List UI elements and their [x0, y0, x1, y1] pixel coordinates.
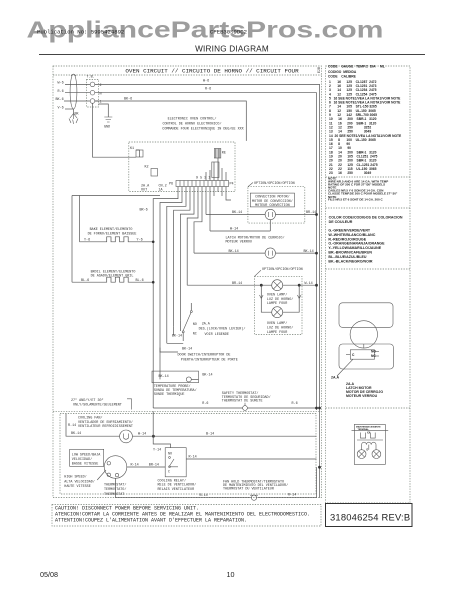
svg-text:T.B.: T.B.: [87, 76, 95, 80]
svg-text:R-6: R-6: [202, 402, 208, 406]
svg-text:VENTILADOR DE ENFRIAMIENTO/: VENTILADOR DE ENFRIAMIENTO/: [78, 420, 133, 425]
svg-text:BK-14: BK-14: [229, 250, 239, 254]
svg-text:W-14: W-14: [230, 228, 238, 232]
svg-text:BASSE VITESSE: BASSE VITESSE: [72, 463, 98, 467]
svg-text:W-6: W-6: [58, 82, 64, 86]
svg-text:K1: K1: [130, 147, 134, 151]
svg-text:BK-14: BK-14: [232, 211, 242, 215]
svg-text:R-6: R-6: [58, 90, 64, 94]
svg-text:MOTEUR VERROU: MOTEUR VERROU: [226, 241, 252, 245]
svg-text:CAUTION! DISCONNECT POWER BEFO: CAUTION! DISCONNECT POWER BEFORE SERVICI…: [55, 505, 199, 511]
svg-text:9 5 3 1: 9 5 3 1: [196, 177, 210, 181]
svg-text:DOOR SWITCH/INTERRUPTOR DE: DOOR SWITCH/INTERRUPTOR DE: [178, 353, 231, 358]
svg-text:BL-6: BL-6: [81, 279, 89, 283]
svg-text:Y.-YELLOW/AMARILLO/JAUNE: Y.-YELLOW/AMARILLO/JAUNE: [328, 246, 381, 250]
svg-text:LUZ DE HORNO/: LUZ DE HORNO/: [267, 326, 293, 331]
svg-text:LATCH MOTOR/MOTOR DE CERROJO/: LATCH MOTOR/MOTOR DE CERROJO/: [226, 235, 285, 240]
svg-text:CPEB30S9DC2: CPEB30S9DC2: [210, 29, 247, 36]
svg-text:BK-14: BK-14: [304, 250, 314, 254]
svg-text:THERMOSTAT: THERMOSTAT: [104, 493, 124, 497]
svg-text:PUERTA/INTERRUPTEUR DE PORTE: PUERTA/INTERRUPTEUR DE PORTE: [181, 357, 238, 362]
svg-text:MOTEUR CONVECTION: MOTEUR CONVECTION: [255, 204, 290, 208]
svg-text:BK-14: BK-14: [182, 347, 192, 351]
svg-text:W-14: W-14: [305, 282, 313, 286]
svg-text:COOLING RELAY/: COOLING RELAY/: [158, 478, 187, 483]
svg-text:P6: P6: [169, 183, 173, 187]
svg-text:C: C: [168, 471, 170, 475]
svg-text:Y-6: Y-6: [137, 239, 143, 243]
svg-text:MOTEUR VERROU: MOTEUR VERROU: [346, 394, 378, 398]
svg-text:W-6: W-6: [203, 80, 209, 84]
svg-text:DES.(LOCK/OVEN LEVIER)/: DES.(LOCK/OVEN LEVIER)/: [199, 327, 246, 332]
svg-text:RELE DE VENTILADOR/: RELE DE VENTILADOR/: [158, 483, 197, 488]
svg-text:BR-6: BR-6: [140, 208, 148, 212]
svg-text:LOW SPEED/BAJA: LOW SPEED/BAJA: [72, 452, 101, 457]
svg-text:D: D: [367, 448, 369, 451]
svg-text:BK-6: BK-6: [56, 98, 64, 102]
svg-text:OVEN LAMP/: OVEN LAMP/: [267, 321, 287, 326]
svg-text:ALTA VELOCIDAD/: ALTA VELOCIDAD/: [64, 479, 95, 484]
svg-text:ELECTRONIC OVEN CONTROL/: ELECTRONIC OVEN CONTROL/: [168, 117, 217, 122]
svg-text:NO: NO: [168, 453, 172, 457]
svg-text:SONDE THERMIQUE: SONDE THERMIQUE: [154, 393, 185, 397]
svg-text:W.-WHITE/BLANCO/BLANC: W.-WHITE/BLANCO/BLANC: [328, 233, 375, 237]
svg-text:G.-GREEN/VERDE/VERT: G.-GREEN/VERDE/VERT: [328, 229, 371, 233]
svg-text:P4: P4: [230, 183, 234, 187]
svg-text:COLOR CODE/CODIGOS DE COLORACI: COLOR CODE/CODIGOS DE COLORACION: [329, 215, 403, 219]
svg-text:THERMOSTAT DE SURETE: THERMOSTAT DE SURETE: [222, 400, 263, 404]
svg-text:Publication No: 5995424892: Publication No: 5995424892: [37, 29, 124, 36]
svg-text:BR-14: BR-14: [306, 211, 316, 215]
svg-text:VENTILATEUR REFROIDISSEMENT: VENTILATEUR REFROIDISSEMENT: [78, 425, 133, 429]
svg-text:R-14: R-14: [131, 463, 139, 467]
svg-text:2A.A: 2A.A: [331, 376, 339, 380]
svg-text:R-6: R-6: [205, 88, 211, 92]
svg-text:DE ASADO/ELEMENT GRIL: DE ASADO/ELEMENT GRIL: [91, 274, 134, 279]
svg-text:10: 10: [227, 570, 235, 579]
svg-text:Y-14: Y-14: [153, 448, 161, 452]
svg-text:ATTENTION!COUPEZ L'ALIMENTATIO: ATTENTION!COUPEZ L'ALIMENTATION AVANT D'…: [55, 517, 247, 523]
svg-text:CODE CALIBRE: CODE CALIBRE: [328, 74, 357, 78]
svg-text:NO: NO: [193, 323, 197, 327]
svg-text:OPTION/OPCION/OPTION: OPTION/OPCION/OPTION: [262, 267, 303, 272]
svg-text:BR.-BROWN/CAFE/BRUN: BR.-BROWN/CAFE/BRUN: [328, 251, 372, 255]
svg-text:R-14: R-14: [68, 424, 76, 428]
svg-text:CODE GAUGE TEMP.C DIA: CODE GAUGE TEMP.C DIA ML: [328, 64, 385, 68]
svg-text:BL-6: BL-6: [136, 279, 144, 283]
svg-text:BAKE ELEMENT/ELEMENTO: BAKE ELEMENT/ELEMENTO: [90, 227, 133, 232]
svg-text:B-14: B-14: [200, 494, 208, 498]
svg-text:23 16 250: 23 16 250 3049: [329, 171, 371, 175]
svg-text:05/08: 05/08: [40, 570, 58, 579]
svg-text:ONLY/SOLAMENTE/SEULEMENT: ONLY/SOLAMENTE/SEULEMENT: [73, 402, 122, 407]
svg-text:HIGH SPEED/: HIGH SPEED/: [64, 475, 86, 480]
svg-text:MAINTENANCE/MANTE: MAINTENANCE/MANTE: [356, 425, 381, 428]
svg-text:BR-14: BR-14: [149, 463, 159, 467]
svg-text:V-6: V-6: [58, 106, 64, 110]
svg-text:BK-14: BK-14: [159, 375, 169, 379]
svg-text:Y-6: Y-6: [84, 239, 90, 243]
svg-text:THERMOSTAT DU VENTILATEUR: THERMOSTAT DU VENTILATEUR: [223, 488, 274, 492]
svg-text:RATING OF 200 C FOR 27"/30" MO: RATING OF 200 C FOR 27"/30" MODELS: [328, 182, 385, 186]
svg-text:K2: K2: [145, 166, 149, 170]
svg-text:OVEN CIRCUIT // CIRCUITO DE HO: OVEN CIRCUIT // CIRCUITO DE HORNO // CIR…: [125, 68, 299, 75]
svg-text:DE FORNO/ELEMENT BAISSEE: DE FORNO/ELEMENT BAISSEE: [88, 231, 137, 236]
svg-text:WIRING DIAGRAM: WIRING DIAGRAM: [195, 44, 269, 53]
svg-text:CLASSE TEMP.DE 200 C POUR MODE: CLASSE TEMP.DE 200 C POUR MODELE 27"-30": [328, 191, 398, 195]
svg-text:LAMPE FOUR: LAMPE FOUR: [267, 331, 287, 335]
svg-text:CONTROL DE HORNO ELECTRONICO/: CONTROL DE HORNO ELECTRONICO/: [162, 122, 221, 127]
svg-text:NC: NC: [193, 333, 197, 337]
svg-text:BK-14: BK-14: [172, 335, 182, 339]
svg-text:R.-RED/ROJO/ROUGE: R.-RED/ROJO/ROUGE: [328, 237, 366, 241]
svg-text:E2B: E2B: [318, 67, 322, 73]
svg-text:VOIR LEGENDE: VOIR LEGENDE: [205, 333, 229, 337]
svg-text:318046254 REV:B: 318046254 REV:B: [330, 512, 410, 523]
svg-text:W-14: W-14: [138, 433, 146, 437]
svg-text:LAMPE FOUR: LAMPE FOUR: [267, 302, 287, 306]
svg-text:OUT: OUT: [141, 189, 147, 193]
svg-text:BL.-BLUE/AZUL/BLEU: BL.-BLUE/AZUL/BLEU: [328, 255, 367, 259]
svg-text:DE COULEUR: DE COULEUR: [329, 220, 353, 224]
svg-text:2A.A: 2A.A: [202, 323, 211, 327]
svg-text:R-6: R-6: [292, 402, 298, 406]
svg-text:GND: GND: [104, 126, 110, 130]
svg-text:BK-14: BK-14: [202, 374, 212, 378]
svg-text:OVEN LAMP/: OVEN LAMP/: [267, 293, 287, 298]
svg-text:COMMANDE FOUR ELECTRONIQUE IN: COMMANDE FOUR ELECTRONIQUE IN DEG/EE XXX: [162, 127, 243, 132]
svg-text:RE: RE: [222, 152, 226, 156]
svg-text:BK.-BLACK/NEGRO/NOIR: BK.-BLACK/NEGRO/NOIR: [328, 259, 373, 263]
svg-text:OPTION/OPCION/OPTION: OPTION/OPCION/OPTION: [254, 181, 295, 186]
svg-text:LUZ DE HORNO/: LUZ DE HORNO/: [267, 297, 293, 302]
svg-text:HAUTE VITESSE: HAUTE VITESSE: [64, 485, 90, 489]
svg-text:BK-6: BK-6: [124, 97, 132, 101]
svg-text:B-14: B-14: [206, 433, 214, 437]
svg-text:O.-ORANGE/NARANJA/ORANGE: O.-ORANGE/NARANJA/ORANGE: [328, 242, 385, 246]
svg-text:VELOCIDAD/: VELOCIDAD/: [72, 457, 92, 462]
svg-text:RELAIS VENTILATEUR: RELAIS VENTILATEUR: [158, 488, 195, 492]
svg-text:FILS NR.5 ET 6 SONT DE 14 GA.: FILS NR.5 ET 6 SONT DE 14 GA. 200 C: [328, 198, 384, 202]
svg-text:BR-14: BR-14: [232, 282, 242, 286]
svg-text:BK-14: BK-14: [71, 432, 81, 436]
svg-text:R-14: R-14: [288, 494, 296, 498]
svg-text:COOLING FAN/: COOLING FAN/: [78, 416, 102, 421]
svg-text:BROIL ELEMENT/ELEMENTO: BROIL ELEMENT/ELEMENTO: [91, 269, 136, 274]
svg-text:XX: XX: [367, 432, 371, 435]
svg-text:CODIGO MEDIDA: CODIGO MEDIDA: [328, 70, 357, 74]
